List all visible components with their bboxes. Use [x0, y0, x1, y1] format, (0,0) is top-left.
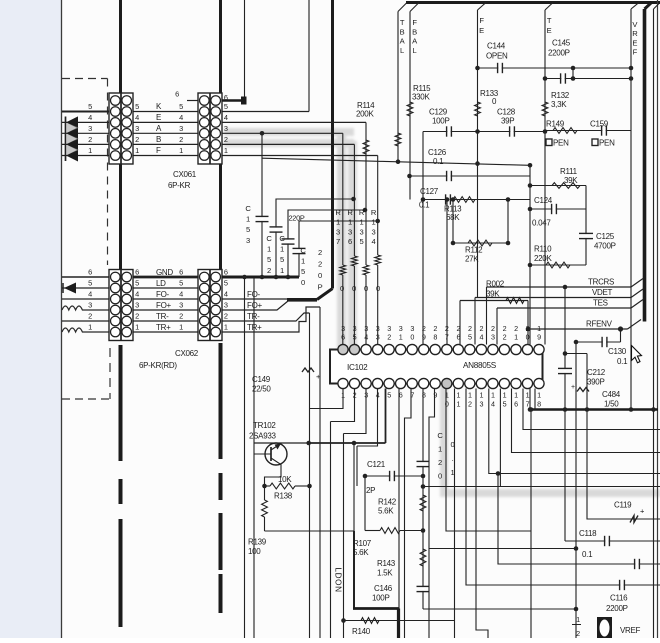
svg-text:1: 1 [280, 245, 284, 254]
svg-text:C: C [279, 234, 285, 243]
svg-text:2: 2 [88, 135, 92, 144]
svg-text:C146: C146 [374, 584, 393, 593]
wire vertical long at x245 to page bottom [244, 277, 246, 638]
diode ghost triangles [67, 123, 79, 133]
svg-text:4: 4 [135, 113, 139, 122]
svg-text:5: 5 [267, 255, 271, 264]
svg-text:4: 4 [491, 400, 495, 409]
fan wire y486 from C120 node [423, 486, 660, 488]
VDET wire [475, 297, 631, 299]
long vertical x343 [343, 434, 345, 639]
svg-text:6: 6 [135, 268, 139, 277]
svg-text:IC102: IC102 [347, 363, 368, 372]
electrolytic marker C149 [302, 368, 314, 372]
svg-text:6: 6 [175, 90, 179, 99]
svg-text:C: C [245, 204, 251, 213]
IC pin6 wire to bottom bus [398, 389, 400, 609]
svg-text:F: F [412, 18, 417, 27]
bus wire right dashed segment 2 [219, 473, 223, 500]
svg-text:1: 1 [537, 391, 541, 400]
svg-text:FO+: FO+ [247, 301, 263, 310]
CX061 row wires right of connector [222, 111, 309, 113]
svg-text:200K: 200K [356, 110, 374, 119]
svg-text:R142: R142 [378, 498, 397, 507]
resistor R134 line (F net) to IC pin33 [377, 156, 379, 256]
svg-text:1: 1 [88, 146, 92, 155]
svg-text:9: 9 [537, 333, 541, 342]
svg-text:R: R [359, 208, 365, 217]
svg-text:5: 5 [387, 391, 391, 400]
bus wire right dashed segment 4 [219, 574, 223, 613]
svg-text:4: 4 [480, 333, 484, 342]
svg-text:1: 1 [246, 215, 250, 224]
svg-text:1: 1 [88, 323, 92, 332]
svg-text:VREF: VREF [620, 626, 641, 635]
svg-text:1: 1 [280, 266, 284, 275]
electrolytic marker C484 [577, 388, 589, 392]
svg-text:F: F [156, 146, 161, 155]
svg-text:3: 3 [179, 301, 183, 310]
vertical node wire x530 [529, 165, 531, 409]
svg-text:C126: C126 [428, 148, 447, 157]
svg-text:0: 0 [318, 271, 322, 280]
svg-text:GND: GND [156, 268, 173, 277]
bus wire right dashed segment 3 [219, 513, 223, 570]
IC pin9 wire [429, 389, 435, 639]
mouse cursor [632, 346, 642, 363]
RFENV riser to IC pin20 [527, 301, 529, 345]
capacitor C118 [605, 540, 608, 542]
fan vertical pin13 to y630 [476, 389, 488, 639]
svg-text:B: B [400, 27, 405, 36]
OPEN marker right [592, 139, 598, 146]
dashed boundary top segment [62, 78, 108, 80]
C130 wire [576, 341, 621, 343]
svg-text:TRCRS: TRCRS [588, 278, 614, 287]
svg-text:1: 1 [514, 391, 518, 400]
svg-text:3: 3 [372, 227, 376, 236]
svg-text:0.047: 0.047 [532, 219, 551, 228]
svg-text:T: T [547, 16, 552, 25]
svg-text:TR-: TR- [156, 312, 169, 321]
capacitor C120 [417, 460, 430, 462]
svg-text:1: 1 [468, 391, 472, 400]
svg-text:C: C [437, 431, 443, 440]
R002 wire [460, 300, 528, 302]
svg-text:3: 3 [336, 227, 340, 236]
svg-text:3: 3 [224, 124, 228, 133]
svg-text:1: 1 [514, 333, 518, 342]
svg-text:2: 2 [179, 135, 183, 144]
wire C124 net [530, 208, 586, 210]
svg-text:22/50: 22/50 [252, 385, 271, 394]
TRCRS riser to IC pin24 [486, 287, 488, 345]
capacitor C146 [417, 585, 430, 587]
IC102 bottom pin circles [338, 378, 348, 388]
CX062 wires to page edge [62, 276, 109, 278]
svg-text:10K: 10K [278, 475, 292, 484]
svg-text:4: 4 [372, 237, 376, 246]
wire C129 C128 net [423, 131, 545, 133]
OPEN marker left [546, 139, 552, 146]
svg-text:6: 6 [514, 400, 518, 409]
svg-text:FO+: FO+ [156, 301, 172, 310]
riser x354 down to bottom bus [353, 531, 355, 609]
svg-text:B: B [156, 135, 161, 144]
svg-text:6P-KR: 6P-KR [168, 181, 191, 190]
RFENV wire [528, 328, 628, 330]
svg-text:0: 0 [301, 278, 305, 287]
connector CX061 left half [109, 93, 133, 164]
wire vertical long at x254 [253, 277, 255, 638]
bus wire left dashed segment 1 [119, 345, 123, 461]
capacitor C152 wire [276, 199, 354, 277]
svg-text:3: 3 [135, 301, 139, 310]
svg-text:T: T [400, 18, 405, 27]
svg-text:1: 1 [399, 333, 403, 342]
svg-text:6: 6 [341, 333, 345, 342]
thick supply bus y409 [531, 408, 658, 411]
thick bus diagonal bend [317, 289, 333, 300]
svg-text:1: 1 [372, 218, 376, 227]
svg-text:8: 8 [433, 333, 437, 342]
svg-text:CX061: CX061 [173, 170, 197, 179]
svg-text:VDET: VDET [592, 288, 613, 297]
svg-text:1.5K: 1.5K [377, 569, 393, 578]
wire R139 to riser x354 [265, 530, 355, 532]
svg-text:P: P [318, 283, 323, 292]
svg-text:2: 2 [576, 629, 580, 638]
svg-text:L: L [413, 46, 417, 55]
svg-text:9: 9 [422, 333, 426, 342]
highlighter trace on row A wire [224, 128, 660, 497]
IC pin1 wire [310, 389, 344, 409]
svg-text:C: C [266, 234, 272, 243]
CX061 wires to page edge rows 5-1 [62, 111, 109, 113]
svg-text:TES: TES [593, 299, 608, 308]
svg-text:B: B [412, 27, 417, 36]
svg-text:3: 3 [179, 124, 183, 133]
wire vertical from top to CX061 pin6 stub [244, 0, 246, 101]
right page edge line [657, 0, 659, 638]
top sheet border [406, 1, 660, 4]
svg-text:PEN: PEN [553, 139, 569, 148]
CX062 row wires between halves [133, 276, 198, 279]
inductor coil TR+ row [62, 328, 109, 332]
CX062 row wires right of connector [222, 298, 288, 300]
svg-text:0: 0 [526, 333, 530, 342]
svg-text:E: E [547, 26, 552, 35]
svg-text:4: 4 [179, 290, 183, 299]
svg-text:R138: R138 [274, 492, 293, 501]
svg-text:0: 0 [410, 333, 414, 342]
capacitor C152 [270, 226, 283, 228]
svg-text:5: 5 [503, 400, 507, 409]
long vertical x309 (C149 net) [309, 313, 311, 638]
svg-text:R139: R139 [248, 538, 267, 547]
svg-text:6: 6 [348, 237, 352, 246]
svg-text:R111: R111 [560, 167, 578, 176]
vertical wire x586 [585, 186, 587, 266]
thick bus horizontal segment [287, 298, 317, 301]
svg-text:C118: C118 [579, 529, 597, 538]
capacitor C151 wire [288, 210, 365, 277]
svg-text:3: 3 [135, 124, 139, 133]
svg-text:C130: C130 [608, 347, 627, 356]
svg-text:0: 0 [364, 284, 368, 293]
svg-text:2: 2 [387, 333, 391, 342]
svg-text:4: 4 [364, 333, 368, 342]
bus wire left dashed segment 2 [119, 479, 123, 504]
capacitor C151 [282, 238, 295, 240]
svg-text:C119: C119 [614, 501, 632, 510]
IC IC102 AN8805S body [330, 350, 543, 384]
svg-text:C212: C212 [587, 368, 606, 377]
svg-text:R140: R140 [352, 627, 371, 636]
svg-text:1: 1 [135, 323, 139, 332]
svg-text:3: 3 [376, 333, 380, 342]
svg-text:39K: 39K [564, 176, 578, 185]
svg-text:5: 5 [468, 333, 472, 342]
resistor R110 [546, 262, 570, 268]
resistor R136 [352, 256, 358, 266]
svg-text:0: 0 [352, 284, 356, 293]
svg-text:R143: R143 [377, 559, 396, 568]
photo-diode array cathode bar [65, 117, 67, 162]
transistor TR102 2SA933 [265, 443, 287, 465]
svg-text:E: E [156, 113, 161, 122]
bus wire left dashed segment 3 [119, 519, 123, 627]
VREF output connector [597, 617, 612, 638]
svg-text:1: 1 [224, 323, 228, 332]
svg-text:C129: C129 [429, 108, 448, 117]
svg-text:C124: C124 [534, 196, 553, 205]
resistor R112 [468, 240, 492, 246]
svg-text:4: 4 [179, 113, 183, 122]
GND thick bus right of CX062 [222, 276, 299, 279]
svg-text:TR-: TR- [247, 312, 260, 321]
resistor R137 line to IC pin36 [342, 133, 344, 265]
svg-text:R149: R149 [546, 120, 565, 129]
vertical right edge x653 [653, 9, 655, 638]
fan wire from pin15 [499, 389, 501, 487]
svg-text:R112: R112 [465, 246, 483, 255]
VDET riser to IC pin25 [474, 298, 476, 345]
svg-text:4: 4 [135, 290, 139, 299]
wire y609 to VREF connector [423, 608, 576, 610]
svg-text:4: 4 [224, 113, 228, 122]
wire vertical top feeding K net corner [308, 0, 310, 112]
svg-text:5.6K: 5.6K [378, 507, 394, 516]
svg-text:2: 2 [438, 458, 442, 467]
svg-text:3: 3 [348, 227, 352, 236]
GND bus junction dots [242, 275, 247, 280]
resistor R002 [506, 298, 524, 304]
svg-text:5: 5 [246, 225, 250, 234]
svg-text:E: E [479, 26, 484, 35]
IC pin2 wire [331, 389, 355, 422]
capacitor C145 [561, 77, 564, 79]
long wire y161 [263, 158, 531, 165]
svg-text:R: R [335, 208, 341, 217]
svg-text:R: R [347, 208, 353, 217]
capacitor C153 [256, 215, 269, 217]
svg-text:L: L [400, 46, 404, 55]
capacitor C129 [447, 130, 450, 132]
svg-text:AN8805S: AN8805S [463, 361, 497, 370]
svg-text:6: 6 [179, 268, 183, 277]
svg-text:1: 1 [503, 391, 507, 400]
svg-text:5: 5 [280, 255, 284, 264]
inductor coil FO+ row [62, 306, 109, 310]
svg-text:4700P: 4700P [594, 242, 616, 251]
svg-text:3: 3 [491, 333, 495, 342]
svg-text:390P: 390P [587, 378, 604, 387]
laser diode on LD row [64, 283, 76, 294]
thick bus top vertical x332 [331, 0, 334, 289]
svg-text:2SA933: 2SA933 [249, 432, 277, 441]
svg-text:FO-: FO- [156, 290, 170, 299]
vertical links into R112 net [452, 200, 454, 244]
svg-text:FO-: FO- [247, 290, 261, 299]
svg-text:2: 2 [88, 312, 92, 321]
svg-text:.: . [452, 454, 454, 463]
svg-text:3: 3 [224, 301, 228, 310]
branch x498 to y564 wire [498, 474, 660, 565]
svg-text:E: E [632, 38, 637, 47]
right sheet border thick bar [643, 9, 647, 322]
C130 riser to RFENV node [620, 329, 622, 342]
svg-text:C149: C149 [252, 375, 271, 384]
capacitor C119 electrolytic mark [630, 516, 638, 523]
riser x354 up to TR102 wire [353, 443, 355, 531]
svg-text:TR102: TR102 [253, 421, 276, 430]
wire y548 to x576 [429, 548, 576, 550]
svg-text:2200P: 2200P [548, 49, 570, 58]
svg-text:2: 2 [224, 135, 228, 144]
long vertical x330 [330, 422, 332, 639]
capacitor C159 [602, 129, 605, 131]
resistor R143 [420, 549, 426, 566]
svg-text:2: 2 [267, 266, 271, 275]
svg-text:100P: 100P [372, 594, 389, 603]
svg-text:6: 6 [224, 268, 228, 277]
dashed boundary vertical lower [109, 348, 111, 399]
svg-text:1: 1 [438, 445, 442, 454]
svg-text:2: 2 [135, 135, 139, 144]
FBAL rail [409, 12, 411, 200]
capacitor C150 wire [299, 221, 378, 277]
svg-text:LD: LD [156, 279, 166, 288]
resistor R139 [264, 486, 266, 500]
vertical branch x423 to IC pin29 [422, 132, 424, 345]
capacitor C125 [579, 232, 593, 234]
svg-text:5: 5 [135, 279, 139, 288]
wire y176 with capacitor C126 [410, 175, 531, 177]
resistor R133 [475, 102, 481, 116]
svg-text:8: 8 [537, 400, 541, 409]
svg-text:0.1: 0.1 [433, 157, 444, 166]
resistor on TBAL rail [395, 133, 401, 146]
resistor R149 [553, 128, 577, 134]
svg-text:C127: C127 [420, 187, 439, 196]
svg-text:7: 7 [445, 333, 449, 342]
svg-text:4: 4 [224, 290, 228, 299]
svg-text:1: 1 [456, 391, 460, 400]
C118 wire [565, 540, 660, 542]
svg-text:R002: R002 [486, 280, 505, 289]
svg-text:1: 1 [491, 391, 495, 400]
FE rail [477, 10, 479, 298]
resistor R140 [344, 620, 455, 622]
svg-text:220K: 220K [534, 254, 552, 263]
IC pin8 wire with C120 [422, 389, 424, 610]
K row stub emphasis [62, 111, 109, 113]
fan wire from pin17 [523, 389, 660, 430]
wire y199 C127 R113 [423, 199, 530, 201]
connector CX062 left half [109, 270, 133, 341]
svg-text:R132: R132 [551, 91, 570, 100]
svg-text:C145: C145 [552, 39, 571, 48]
resistor R135 [363, 265, 369, 275]
svg-text:1/50: 1/50 [604, 400, 619, 409]
resistor R134 [375, 255, 381, 265]
svg-text:1: 1 [135, 146, 139, 155]
photo-diode array triangles [66, 116, 78, 128]
IC pin7 wire [405, 389, 412, 639]
wire C144 net [478, 67, 632, 69]
svg-text:OPEN: OPEN [486, 52, 508, 61]
left page margin [0, 0, 61, 638]
IC pin18 wire to bus [534, 389, 536, 410]
svg-text:7: 7 [336, 237, 340, 246]
svg-text:6: 6 [456, 333, 460, 342]
bus wire left vertical [119, 0, 122, 341]
link between C144 and C145 nets [572, 68, 574, 79]
svg-text:2: 2 [318, 248, 322, 257]
svg-text:0: 0 [438, 472, 442, 481]
CX061 row wires between halves [133, 111, 198, 113]
resistor R107 [365, 530, 380, 532]
svg-text:1: 1 [456, 400, 460, 409]
R002 riser to IC pin26 [459, 301, 461, 345]
svg-text:0.1: 0.1 [582, 550, 593, 559]
svg-text:3: 3 [246, 236, 250, 245]
svg-text:5: 5 [179, 102, 183, 111]
svg-text:1: 1 [301, 257, 305, 266]
svg-text:3: 3 [88, 301, 92, 310]
C119 wire [587, 354, 660, 520]
wire vertical A-branch x262 [261, 133, 263, 277]
svg-text:2: 2 [179, 312, 183, 321]
svg-text:3,3K: 3,3K [551, 100, 567, 109]
svg-text:2: 2 [468, 400, 472, 409]
svg-text:1: 1 [360, 218, 364, 227]
left page border line [61, 0, 63, 638]
svg-text:3: 3 [480, 400, 484, 409]
svg-text:100: 100 [248, 547, 261, 556]
TBAL rail [397, 12, 399, 162]
resistor R137 [340, 265, 346, 275]
svg-text:R110: R110 [534, 245, 552, 254]
svg-text:2: 2 [135, 312, 139, 321]
dashed boundary bottom segment [62, 398, 110, 400]
capacitor on y564 wire [635, 563, 638, 565]
capacitor C130 [603, 341, 606, 343]
vertical from C127 node to IC pin27 [446, 200, 448, 345]
wire R112 net [453, 242, 508, 244]
capacitor C128 [510, 130, 513, 132]
